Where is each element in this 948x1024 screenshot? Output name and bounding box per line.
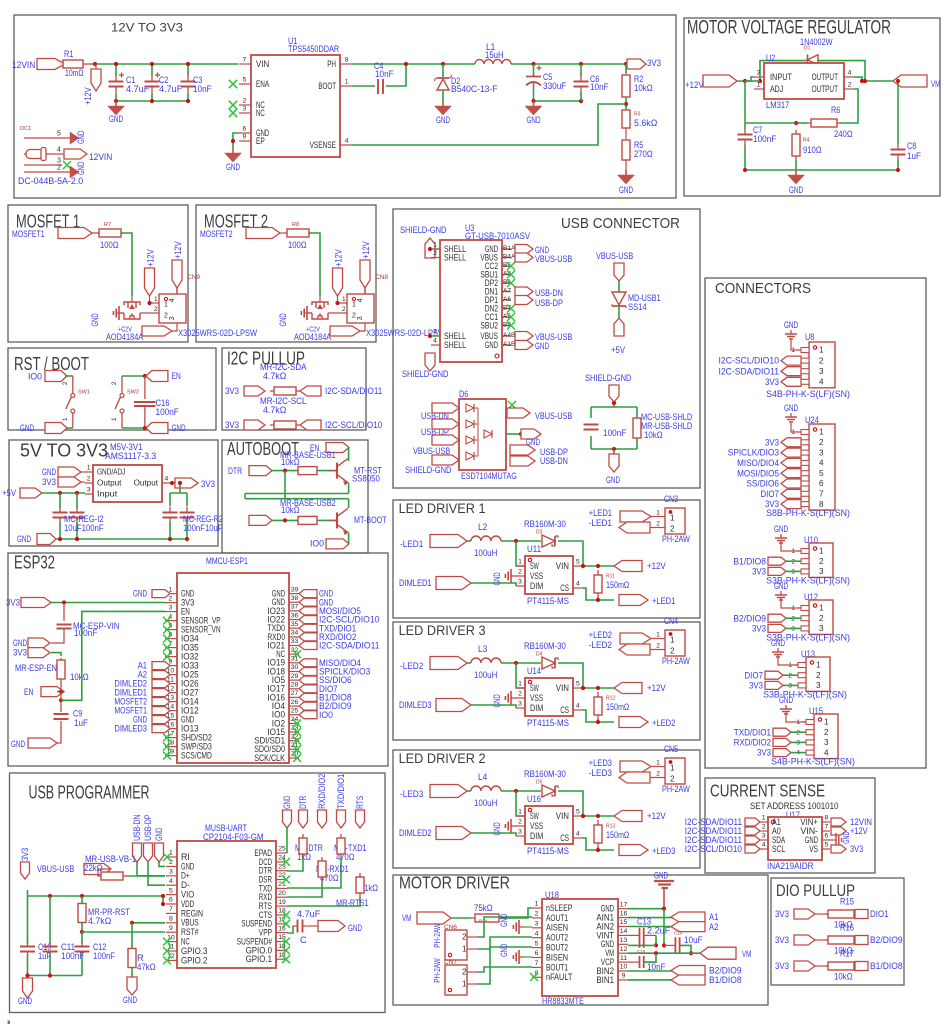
svg-text:1: 1 [816,661,821,670]
net flag I2C-SCL/DIO10 [300,420,321,430]
svg-text:100Ω: 100Ω [100,239,119,250]
svg-text:L4: L4 [478,771,487,782]
pin 4 SCL [760,848,768,850]
pin3 stub and output flag [170,323,177,331]
svg-text:2: 2 [462,933,467,942]
svg-text:25: 25 [291,707,299,714]
svg-text:TPS5450DDAR: TPS5450DDAR [288,43,339,54]
svg-text:1: 1 [819,428,824,437]
pin 17 GND [618,908,628,910]
svg-text:NC: NC [256,108,265,118]
svg-text:4: 4 [535,930,539,937]
ground bus [745,169,898,171]
svg-text:BISEN: BISEN [546,952,568,962]
pin 3 NC [239,112,251,114]
svg-text:USB CONNECTOR: USB CONNECTOR [561,216,680,232]
svg-text:1: 1 [670,514,675,523]
svg-text:GND: GND [348,922,362,933]
svg-text:19: 19 [278,899,286,906]
IC MUSB-UART body [177,841,276,968]
pin 23 IO15 [289,731,299,733]
pin 37 IO23 [289,610,299,612]
svg-text:B1/DIO8: B1/DIO8 [870,960,903,971]
flag GND bottom right [609,454,619,472]
wire CS to R [582,588,598,600]
wire gnd row13 [628,944,656,946]
svg-text:ENA: ENA [256,79,269,89]
pin 17 SUSPEND [276,923,287,925]
svg-text:R15: R15 [840,896,854,907]
wire R to +LED [598,719,614,722]
svg-text:PH: PH [327,59,336,69]
diode MD-USB1 SS14 [612,292,626,305]
svg-text:S8B-PH-K-S(LF)(SN): S8B-PH-K-S(LF)(SN) [766,507,850,518]
resistor R4 910 [795,130,797,160]
pin 1 nSLEEP [532,907,542,909]
pin 6 BISEN [532,957,542,959]
svg-text:PH-2AW: PH-2AW [433,923,442,948]
svg-text:3: 3 [169,604,173,611]
svg-text:GND: GND [499,944,509,957]
svg-text:9: 9 [243,134,247,141]
capacitor C9 1uF [60,700,62,712]
wire diode to VIN node [558,791,586,816]
svg-text:1: 1 [433,242,437,249]
wire to MT-BOOT base [317,519,337,521]
pin 3 INPUT [754,76,764,78]
resistor R2 10k [625,64,627,74]
pin 17 SHD/SD2 [165,737,177,739]
no-connect D6 top right [508,401,516,409]
wire DIM [471,833,516,836]
svg-text:33: 33 [291,638,299,645]
wire DIM [471,705,516,708]
svg-text:DTR: DTR [298,796,308,809]
svg-text:3V3: 3V3 [775,960,789,971]
feedback node wire [625,97,627,110]
flag SHIELD-GND bottom [425,353,435,371]
svg-text:U14: U14 [527,665,541,676]
pin 1 ADJ [754,88,764,90]
svg-text:BOOT: BOOT [318,81,336,91]
svg-text:GND: GND [278,313,288,326]
pin 1 RI [166,856,177,858]
svg-text:Output: Output [134,479,159,488]
svg-text:DIM: DIM [530,831,543,841]
pin A8 SBU1 [502,274,511,276]
svg-text:1: 1 [518,809,522,816]
net flag row2 [249,515,272,525]
svg-text:16: 16 [620,910,628,917]
wire to base resistor 2 [272,519,298,521]
svg-text:5: 5 [576,809,580,816]
flag +12V [614,561,642,572]
pin 21 TXD [276,887,287,889]
wire D6 gnd [506,433,521,435]
pin 2 OUTPUT [844,88,854,90]
capacitor MC-USB-SHLD 100nF [590,425,592,430]
svg-text:2: 2 [342,306,346,313]
wire diode to +5V [618,306,620,318]
pin 32 NC [289,653,299,655]
svg-text:7: 7 [825,824,829,831]
svg-text:25: 25 [278,846,286,853]
svg-text:VBUS-USB: VBUS-USB [535,410,572,421]
mosfet MOSFET1 AOD4184A symbol [131,296,133,302]
svg-text:4.7kΩ: 4.7kΩ [88,915,111,926]
svg-text:CN9: CN9 [187,274,200,281]
svg-text:4.7uF: 4.7uF [297,908,321,919]
svg-text:PH-2AW: PH-2AW [662,655,690,666]
wire R6 to R4 top [796,122,807,124]
svg-text:2: 2 [656,771,660,778]
svg-text:1: 1 [164,301,168,308]
svg-text:12VIN: 12VIN [12,59,35,70]
ground flag for SW1 [45,423,67,434]
svg-text:DIM: DIM [530,703,543,713]
svg-text:3: 3 [824,738,829,747]
svg-text:ESD7104MUTAG: ESD7104MUTAG [461,470,517,481]
svg-text:38: 38 [291,595,299,602]
pin 15 AIN2 [618,926,628,928]
flag VBUS-USB out right [507,408,530,418]
pin 7 BOUT1 [532,966,542,968]
ground bars BISEN [519,956,524,958]
ground bars [304,312,312,314]
wire SW tap [516,663,525,688]
pin 16 IO13 [165,728,177,730]
svg-text:SCL: SCL [772,844,785,854]
left net flags [152,590,170,598]
svg-text:+LED3: +LED3 [652,845,675,856]
svg-text:CS: CS [560,583,569,593]
svg-text:B2/DIO9: B2/DIO9 [870,934,903,945]
pin 6 GND [239,132,251,134]
svg-text:3: 3 [819,367,824,376]
wire VSENSE to divider [352,104,626,145]
svg-text:+C2V: +C2V [306,326,320,333]
pin SHELL 1 [431,248,440,250]
wire VIN node to +12V [582,687,614,689]
section MOSFET 2 frame [196,205,376,342]
svg-text:U16: U16 [527,793,541,804]
ground arrow at DC1 pin2 [70,166,79,178]
origin tick bottom-left [8,1021,10,1024]
svg-text:10kΩ: 10kΩ [834,971,853,982]
svg-text:3V3: 3V3 [6,597,20,608]
svg-text:USB-DP: USB-DP [143,814,153,840]
no-connects right pins [293,650,301,658]
wire SW tap [516,791,525,816]
svg-text:1: 1 [518,559,522,566]
svg-text:IO0: IO0 [319,709,333,720]
svg-text:3: 3 [535,921,539,928]
svg-text:100nF10uF: 100nF10uF [183,523,223,533]
svg-text:SHIELD-GND: SHIELD-GND [405,464,452,475]
pin 2 NC [239,104,251,106]
resistor MR-I2C-SDA body [270,390,300,392]
svg-text:PH-2AW: PH-2AW [662,783,690,794]
wire EN to pin3 [61,611,165,700]
svg-text:R6: R6 [831,104,840,115]
no-connect marks U3 [507,262,515,270]
svg-text:27: 27 [291,690,299,697]
port DIO1 [855,910,868,919]
svg-text:5: 5 [819,469,824,478]
svg-text:CN3: CN3 [664,493,678,504]
wire to gnd flag [613,449,615,454]
svg-text:7: 7 [819,490,824,499]
svg-text:RB160M-30: RB160M-30 [524,518,566,529]
flag +5V [614,318,624,336]
svg-text:+12V: +12V [173,241,183,259]
svg-text:SCS/CMD: SCS/CMD [181,751,212,761]
svg-text:GND: GND [771,637,785,648]
pin3 stub and output flag [358,323,365,331]
svg-text:INPUT: INPUT [770,72,792,82]
svg-text:6: 6 [535,950,539,957]
svg-text:100nF: 100nF [753,133,777,144]
ground bars at VSS [511,575,516,577]
wire CS to R [582,710,598,722]
svg-text:4: 4 [357,298,364,302]
svg-text:270Ω: 270Ω [634,148,653,159]
svg-text:4: 4 [433,338,437,345]
svg-text:14: 14 [620,928,628,935]
ground symbol [795,170,797,175]
wire SW1 to GND [72,413,74,428]
svg-text:3: 3 [762,833,766,840]
svg-text:1: 1 [154,296,158,303]
svg-text:SBU2: SBU2 [480,320,498,330]
svg-text:7: 7 [243,57,247,64]
section 5V TO 3V3 frame [9,440,218,546]
svg-text:20: 20 [278,890,286,897]
svg-text:+12V: +12V [361,241,371,259]
svg-text:L2: L2 [478,521,487,532]
svg-text:GND: GND [18,995,32,1006]
svg-text:A7: A7 [503,288,511,295]
svg-text:4: 4 [576,831,580,838]
pin 10 NC [166,941,177,943]
net flag 12VIN at DC1 [64,149,87,159]
wire CS to R [582,838,598,850]
ground flag bottom [37,534,56,545]
svg-text:150mΩ: 150mΩ [606,829,629,840]
resistor R8 100ohm [285,232,311,234]
svg-text:2: 2 [819,438,824,447]
flag 12VIN [831,818,846,826]
section AUTOBOOT frame [222,440,368,553]
svg-text:12V TO 3V3: 12V TO 3V3 [111,22,183,35]
svg-text:3: 3 [357,316,364,320]
svg-text:240Ω: 240Ω [834,128,853,139]
svg-text:USB-DP: USB-DP [535,297,563,308]
svg-text:2: 2 [87,476,91,483]
svg-text:C: C [300,934,307,945]
pin 20 RXD [276,896,287,898]
pin4 stub [364,288,366,294]
svg-text:SHIELD-GND: SHIELD-GND [400,224,447,235]
svg-text:5.6kΩ: 5.6kΩ [634,117,657,128]
svg-text:3: 3 [757,70,761,77]
svg-text:-LED2: -LED2 [589,639,612,650]
svg-text:4: 4 [57,146,61,153]
wire VIN node to +12V [582,815,614,817]
svg-text:+12V: +12V [647,560,666,571]
svg-text:+12V: +12V [333,249,343,267]
connector U24 S8B [809,424,835,510]
pin 28 IO17 [289,688,299,690]
svg-text:1: 1 [535,901,539,908]
svg-text:VSS: VSS [530,693,543,703]
pin 27 IO16 [289,696,299,698]
svg-text:AMS1117-3.3: AMS1117-3.3 [105,450,156,461]
svg-text:1uF: 1uF [907,150,921,161]
svg-text:LED DRIVER 2: LED DRIVER 2 [399,750,486,766]
pin 23 DTR [276,870,287,872]
svg-text:VM: VM [931,78,940,89]
svg-text:B1/DIO8: B1/DIO8 [709,974,742,985]
svg-text:3: 3 [57,157,61,164]
svg-text:I2C-SDA/DIO11: I2C-SDA/DIO11 [719,365,780,376]
capacitor C3 10nF [187,64,189,75]
pin 30 IO18 [289,671,299,673]
svg-text:1: 1 [670,764,675,773]
svg-text:4.7uF: 4.7uF [159,83,183,94]
svg-text:3: 3 [169,869,173,876]
pin 5 ENA [239,83,251,85]
flag GND row12 [515,341,533,350]
svg-text:VSENSE: VSENSE [310,140,336,150]
pin 38 GND [289,601,299,603]
svg-text:+12V: +12V [145,249,155,267]
svg-text:13: 13 [620,937,628,944]
net flag I2C-SDA/DIO11 [300,386,321,396]
pin 2 3V3 [165,602,177,604]
svg-text:MOTOR VOLTAGE REGULATOR: MOTOR VOLTAGE REGULATOR [687,18,891,39]
svg-text:I2C-SCL/DIO10: I2C-SCL/DIO10 [719,355,780,366]
svg-text:1: 1 [670,636,675,645]
pin 2 A0 [760,830,768,832]
svg-text:GND: GND [172,422,186,433]
pin 7 VIN [239,63,251,65]
pin 8 IO32 [165,656,177,658]
svg-text:+12V: +12V [647,682,666,693]
svg-text:SS8050: SS8050 [352,473,380,484]
svg-text:VIN: VIN [556,683,569,693]
section ESP32 frame [8,553,388,766]
svg-text:ESP32: ESP32 [14,551,55,572]
svg-text:3: 3 [518,829,522,836]
wire GND right down [286,828,288,853]
pin B6 DP2 [502,282,511,284]
svg-text:MT-BOOT: MT-BOOT [354,514,387,525]
svg-text:SW: SW [530,811,539,821]
svg-text:3V3: 3V3 [775,908,789,919]
section LED DRIVER 3 frame [393,622,700,740]
svg-text:3V3: 3V3 [765,376,779,387]
svg-text:3: 3 [518,579,522,586]
svg-text:4.7kΩ: 4.7kΩ [263,404,286,415]
svg-text:4: 4 [165,476,169,483]
ground under C5 [533,101,535,106]
wire cap to gnd flag [308,925,318,927]
switch SW1 [71,394,75,398]
svg-text:100nF: 100nF [603,427,627,438]
port B1/DIO8 [855,962,868,971]
wire diode to VIN node [558,541,586,566]
svg-text:100uH: 100uH [474,669,497,680]
svg-text:5: 5 [576,681,580,688]
svg-text:MR-RTS1: MR-RTS1 [336,897,369,908]
svg-text:1uF: 1uF [74,717,88,728]
ground flag right [146,423,168,434]
svg-text:I2C-SCL/DIO10: I2C-SCL/DIO10 [325,420,382,430]
svg-text:S3B-PH-K-S(LF)(SN): S3B-PH-K-S(LF)(SN) [763,689,847,700]
pin 20 SCK/CLK [289,757,299,759]
svg-text:INA219AIDR: INA219AIDR [767,860,814,871]
wires CN6 to AOUT pins [477,917,532,937]
pin 9 BIN1 [618,979,628,981]
pin 3 EN [165,611,177,613]
svg-text:1: 1 [462,980,467,989]
svg-text:R1: R1 [64,48,73,59]
diode D2 B540C-13-F [442,64,444,77]
svg-text:10kΩ: 10kΩ [281,504,300,515]
svg-text:VBUS-USB: VBUS-USB [596,250,633,261]
svg-text:D1: D1 [804,46,811,52]
svg-text:3V3: 3V3 [757,747,771,758]
svg-text:SCK/CLK: SCK/CLK [254,753,285,763]
flag +LED1 to CN3 pin1 [620,511,651,522]
pin 25 EPAD [276,852,287,854]
svg-text:U11: U11 [527,543,541,554]
svg-text:1: 1 [824,718,829,727]
svg-text:U2: U2 [766,52,775,63]
wire shield top [430,248,440,250]
svg-text:10nF: 10nF [375,68,394,79]
pin 3 SDA [760,839,768,841]
svg-text:2: 2 [62,381,69,385]
svg-text:2: 2 [154,306,158,313]
pin 7 VIN- [822,830,830,832]
pin1 dot U3 [495,354,499,358]
mosfet MOSFET2 AOD4184A symbol [319,296,321,302]
svg-text:23: 23 [278,863,286,870]
wire inductor to diode [501,662,541,664]
svg-text:2: 2 [111,381,118,385]
svg-text:-LED3: -LED3 [589,767,612,778]
svg-text:VIN: VIN [256,59,269,69]
svg-text:2: 2 [656,521,660,528]
svg-text:GND: GND [784,402,798,413]
pin 14 VINT [618,934,628,936]
svg-text:2: 2 [816,671,821,680]
svg-text:GND: GND [619,184,633,195]
svg-text:330uF: 330uF [543,80,567,91]
svg-text:3V3: 3V3 [752,566,766,577]
wire MT-RST emitter down [348,483,350,494]
svg-text:10kΩ: 10kΩ [644,429,663,440]
no-connects left pins [163,617,171,625]
flag VS 3V3 [831,845,846,853]
pin 22 DSR [276,879,287,881]
svg-text:GND: GND [76,162,86,175]
pin 24 IO2 [289,722,299,724]
svg-text:2: 2 [518,691,522,698]
IC MMCU-ESP1 body [177,573,289,763]
